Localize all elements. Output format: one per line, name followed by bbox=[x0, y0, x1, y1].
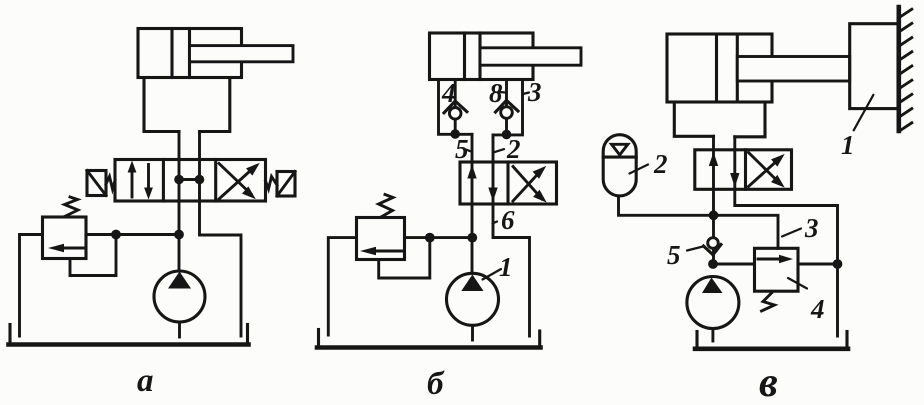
svg-text:6: 6 bbox=[501, 205, 515, 235]
cylinder mounting block (diagram v) bbox=[674, 102, 765, 137]
junction node pump line (diagram b) bbox=[467, 233, 477, 243]
directional valve body 4/3 (diagram a) bbox=[115, 160, 266, 202]
tank (diagram a) bbox=[9, 325, 249, 345]
tank (diagram b) bbox=[317, 330, 541, 348]
svg-text:4: 4 bbox=[810, 294, 825, 324]
piston (diagram v) bbox=[717, 34, 738, 102]
cylinder (diagram v) bbox=[667, 34, 772, 102]
right spring (diagram a) bbox=[266, 177, 278, 190]
check valve 8 seat (diagram b) bbox=[496, 100, 519, 112]
wire: right check valve line (diagram b) bbox=[505, 80, 508, 135]
wire: main pressure line relief to pump (diagram b) bbox=[405, 236, 473, 239]
wire: pump line through valve (diagram v) bbox=[712, 136, 715, 215]
pressure valve spring (diagram v) bbox=[762, 293, 775, 311]
svg-text:1: 1 bbox=[499, 252, 513, 282]
valve centre position blocked ports (diagram a) bbox=[174, 175, 204, 185]
svg-text:а: а bbox=[137, 363, 154, 399]
wire: return line B from cylinder through valve to tank (diagram a) bbox=[200, 132, 242, 337]
svg-text:2: 2 bbox=[653, 149, 668, 179]
pressure valve box 3/4 (diagram v) bbox=[755, 248, 799, 291]
junction node pump (diagram v) bbox=[708, 259, 718, 269]
junction node pilot (diagram a) bbox=[111, 230, 121, 240]
relief valve spring (diagram a) bbox=[65, 197, 79, 217]
wire: relief return to tank (diagram a) bbox=[20, 235, 43, 337]
piston (diagram a) bbox=[172, 29, 190, 78]
junction node accumulator (diagram v) bbox=[709, 210, 719, 220]
wire: return line through valve to tank (diagram v) bbox=[735, 137, 838, 336]
valve crossed arrows position (diagram b) bbox=[513, 162, 550, 206]
valve crossed arrows position (diagram v) bbox=[749, 150, 788, 191]
piston rod (diagram b) bbox=[480, 48, 581, 65]
label 1 with leader (diagram v) bbox=[841, 95, 873, 160]
pump 1 (diagram b) bbox=[447, 273, 499, 325]
junction node tank line (diagram v) bbox=[833, 259, 843, 269]
svg-text:1: 1 bbox=[841, 130, 855, 160]
accumulator 2 (diagram v) bbox=[603, 135, 636, 196]
valve arrows straight position (diagram v) bbox=[709, 152, 740, 187]
svg-text:б: б bbox=[427, 366, 445, 402]
label 2 with leader (diagram b) bbox=[494, 134, 520, 164]
fixed wall (diagram v) bbox=[896, 7, 901, 131]
wire: accumulator line (diagram v) bbox=[619, 196, 714, 215]
wire: left outer port line (diagram b) bbox=[439, 80, 473, 135]
wire: relief inlet line (diagram v) bbox=[713, 263, 755, 266]
check valve 5 ball (diagram v) bbox=[708, 238, 719, 249]
wire: relief outlet line (diagram v) bbox=[798, 263, 838, 266]
junction node 2-line (diagram b) bbox=[502, 130, 512, 140]
label 1 with leader (diagram b) bbox=[483, 252, 513, 282]
cylinder (diagram a) bbox=[138, 29, 242, 78]
svg-text:5: 5 bbox=[667, 240, 681, 270]
cylinder (diagram b) bbox=[430, 33, 534, 80]
label 2 with leader (diagram v) bbox=[630, 149, 668, 179]
piston rod to block (diagram v) bbox=[737, 57, 849, 82]
cylinder mounting block (diagram a) bbox=[144, 78, 230, 132]
wire: line to check valve and pump (diagram v) bbox=[712, 215, 715, 264]
pressure relief valve box (diagram b) bbox=[357, 218, 405, 260]
label 4 with leader (diagram v) bbox=[788, 278, 825, 324]
check valve 5 seat (diagram v) bbox=[704, 245, 722, 255]
svg-text:2: 2 bbox=[506, 134, 521, 164]
valve left position arrows (diagram a) bbox=[128, 161, 153, 200]
svg-text:в: в bbox=[759, 360, 778, 405]
label 6 with leader (diagram b) bbox=[493, 205, 516, 235]
junction node pump line (diagram a) bbox=[174, 230, 184, 240]
label 5 with leader (diagram v) bbox=[667, 240, 703, 270]
wire: right outer port line (diagram b) bbox=[493, 80, 523, 135]
check valve 4 ball (diagram b) bbox=[449, 108, 461, 120]
check valve 8 ball (diagram b) bbox=[501, 107, 513, 119]
piston rod (diagram a) bbox=[190, 46, 294, 62]
relief valve spring (diagram b) bbox=[379, 195, 394, 218]
directional valve body 4/2 (diagram b) bbox=[460, 162, 557, 204]
wire: relief pilot line (diagram b) bbox=[379, 242, 430, 278]
wall hatching (diagram v) bbox=[899, 9, 912, 131]
wire: relief return to tank (diagram b) bbox=[328, 238, 356, 335]
junction node 5-line (diagram b) bbox=[450, 129, 460, 139]
valve right position crossed arrows (diagram a) bbox=[219, 159, 263, 203]
driven block 1 (diagram v) bbox=[850, 24, 898, 109]
left spring (diagram a) bbox=[106, 177, 115, 190]
valve arrows straight position (diagram b) bbox=[467, 165, 497, 202]
wire: left check valve line (diagram b) bbox=[454, 80, 457, 135]
wire: pump suction (diagram v) bbox=[711, 329, 714, 342]
svg-text:3: 3 bbox=[804, 213, 819, 243]
label 3 with leader (diagram b) bbox=[523, 77, 542, 107]
label 8 with leader (diagram b) bbox=[489, 78, 506, 108]
wire: pump suction (diagram a) bbox=[178, 322, 181, 337]
left solenoid box (diagram a) bbox=[87, 171, 106, 196]
junction node pilot (diagram b) bbox=[425, 233, 435, 243]
wire: relief tap line (diagram v) bbox=[714, 215, 779, 248]
tank (diagram v) bbox=[695, 332, 848, 349]
label 5 with leader (diagram b) bbox=[455, 134, 471, 164]
wire: line 5 down through valve to pump (diagram b) bbox=[471, 134, 474, 273]
directional valve body (diagram v) bbox=[695, 150, 792, 190]
wire: main pressure line relief to pump (diagram a) bbox=[86, 233, 179, 236]
svg-text:4: 4 bbox=[441, 78, 456, 108]
wire: relief pilot line (diagram a) bbox=[70, 239, 116, 276]
right solenoid box (diagram a) bbox=[277, 172, 295, 197]
pump (diagram a) bbox=[154, 271, 205, 322]
check valve 4 seat (diagram b) bbox=[444, 101, 467, 113]
wire: pump line A through valve to pump (diagram a) bbox=[178, 132, 181, 272]
wire: line 2 down through valve then to tank (diagram b) bbox=[493, 135, 530, 336]
pump (diagram v) bbox=[687, 277, 739, 329]
piston (diagram b) bbox=[465, 33, 481, 80]
wire: pump suction (diagram b) bbox=[471, 326, 474, 341]
pressure relief valve box (diagram a) bbox=[43, 217, 87, 259]
label 3 with leader (diagram v) bbox=[782, 213, 819, 243]
